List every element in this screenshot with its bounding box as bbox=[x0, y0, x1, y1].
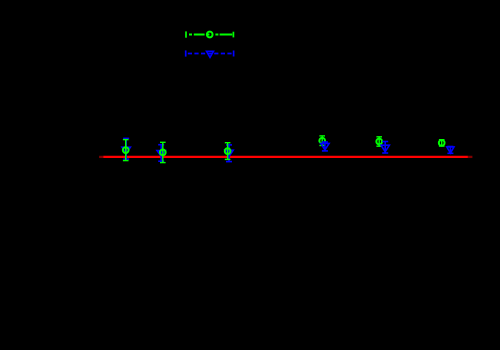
green errorbar P1 bbox=[123, 140, 129, 161]
blue triangle marker P6 bbox=[447, 147, 454, 153]
red reference line bright main segment bbox=[103, 156, 468, 158]
green circle marker P6 bbox=[439, 140, 445, 146]
green circle marker P5 bbox=[376, 139, 382, 145]
blue triangle marker P2 bbox=[157, 151, 165, 157]
red reference line faded left end bbox=[99, 156, 103, 158]
blue errorbar P6 bbox=[447, 147, 453, 154]
blue errorbar P2 bbox=[158, 145, 164, 162]
green circle marker P4 bbox=[319, 138, 325, 144]
green errorbar P4 bbox=[319, 136, 325, 146]
blue triangle marker P5 bbox=[381, 145, 389, 152]
green circle marker P1 bbox=[123, 147, 129, 153]
blue triangle marker P1 bbox=[122, 147, 130, 154]
green errorbar P3 bbox=[225, 143, 231, 160]
green errorbar P2 bbox=[160, 142, 166, 162]
green errorbar P6 bbox=[439, 140, 445, 146]
blue errorbar P3 bbox=[226, 145, 232, 162]
green circle marker P3 bbox=[225, 148, 231, 154]
blue errorbar P1 bbox=[123, 138, 129, 159]
blue errorbar P4 bbox=[322, 142, 328, 151]
green errorbar P5 bbox=[376, 137, 382, 146]
legend entry 1 marker: open green circle bbox=[207, 32, 213, 38]
legend entry 2 marker: open blue down-triangle bbox=[207, 51, 214, 57]
blue triangle marker P3 bbox=[225, 150, 233, 156]
red reference line faded right end bbox=[468, 156, 473, 158]
legend entry 2: blue dashed errorbar line with end caps bbox=[186, 50, 234, 56]
blue triangle marker P4 bbox=[321, 143, 329, 150]
green circle marker P2 bbox=[160, 150, 166, 156]
legend entry 1: green dash-dot errorbar line with end caps bbox=[186, 31, 233, 37]
blue errorbar P5 bbox=[382, 142, 388, 154]
